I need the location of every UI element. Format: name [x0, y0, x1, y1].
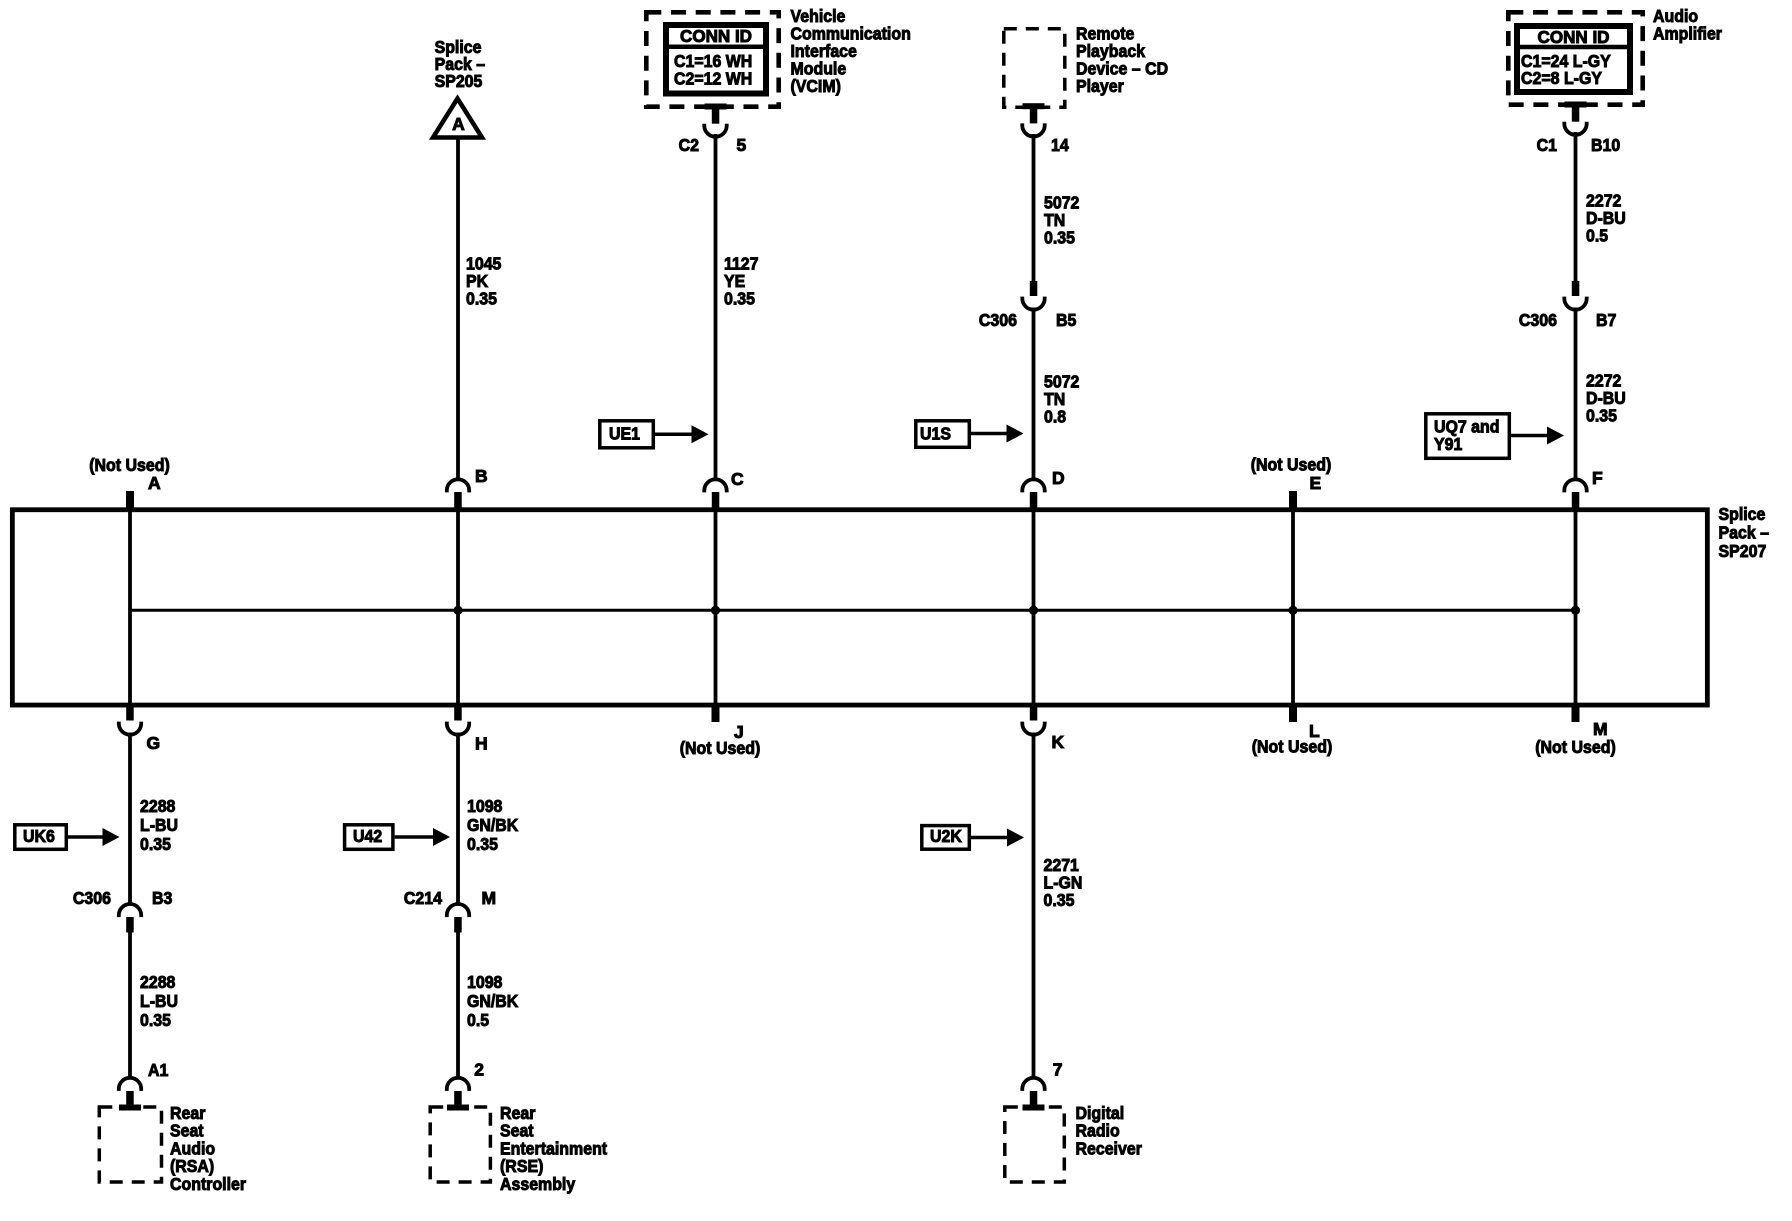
svg-text:0.35: 0.35 [140, 1010, 171, 1030]
junction dot B [453, 606, 462, 615]
svg-text:B: B [475, 466, 488, 486]
wire label 1098 GN/BK 0.35 [467, 796, 519, 854]
terminal E (Not Used) label [1251, 455, 1332, 494]
SP207 internal wire A-G [128, 510, 132, 705]
svg-text:U1S: U1S [920, 424, 951, 444]
wire 1098 GN/BK 0.5 (C214 to RSE) [456, 933, 460, 1078]
svg-text:K: K [1052, 732, 1065, 752]
svg-text:Amplifier: Amplifier [1653, 24, 1722, 44]
terminal M stub (Not Used) [1535, 705, 1616, 757]
svg-text:GN/BK: GN/BK [467, 991, 519, 1011]
splice pack SP205 label [435, 37, 486, 91]
SP207 internal wire E-L [1291, 510, 1295, 705]
svg-text:(Not Used): (Not Used) [680, 738, 761, 758]
svg-text:7: 7 [1053, 1060, 1063, 1080]
svg-text:CONN ID: CONN ID [1538, 27, 1610, 47]
wire label 1045 PK 0.35 [466, 254, 502, 309]
wire label 2288 L-BU 0.35 (lower) [140, 972, 178, 1030]
svg-text:H: H [475, 734, 488, 754]
svg-text:5: 5 [737, 135, 747, 155]
wire label 5072 TN 0.8 [1044, 372, 1080, 427]
svg-text:Assembly: Assembly [500, 1174, 575, 1194]
connector cup B [447, 479, 469, 508]
callout U1S [916, 421, 1024, 448]
wire 2272 D-BU 0.35 (C306 to SP207 F) [1574, 308, 1578, 480]
junction dot C [711, 606, 720, 615]
RSA pin stub [119, 1078, 141, 1111]
svg-text:0.5: 0.5 [467, 1010, 489, 1030]
svg-text:SP207: SP207 [1719, 541, 1767, 561]
wire label 1098 GN/BK 0.5 [467, 972, 519, 1030]
svg-text:(Not Used): (Not Used) [89, 455, 170, 475]
svg-text:Receiver: Receiver [1076, 1138, 1143, 1158]
svg-text:(Not Used): (Not Used) [1252, 737, 1333, 757]
junction dot D [1029, 606, 1038, 615]
svg-text:M: M [1593, 719, 1608, 739]
splice pack SP205 triangle A [433, 99, 482, 138]
callout UE1 [600, 421, 709, 448]
VCIM module label [791, 6, 911, 96]
svg-text:0.35: 0.35 [140, 834, 171, 854]
svg-text:C306: C306 [979, 310, 1017, 330]
svg-text:C: C [731, 469, 744, 489]
svg-text:(VCIM): (VCIM) [791, 76, 841, 96]
wire 1045 PK 0.35 (SP205 to SP207 B) [456, 139, 460, 479]
SP207 internal wire C-J [714, 510, 718, 705]
connector cup G [119, 705, 141, 735]
svg-text:Y91: Y91 [1434, 434, 1463, 454]
wire 5072 TN 0.35 (device to C306) [1032, 134, 1036, 281]
RSE pin stub [447, 1078, 469, 1111]
connector cup D [1022, 479, 1044, 508]
svg-text:B7: B7 [1596, 310, 1616, 330]
wire 2272 D-BU 0.5 (amp to C306) [1574, 132, 1578, 281]
svg-text:C2=8 L-GY: C2=8 L-GY [1521, 68, 1602, 88]
connector cup C [704, 479, 726, 508]
svg-text:C1: C1 [1537, 135, 1558, 155]
connector cup F [1564, 479, 1586, 508]
SP207 internal wire D-K [1032, 510, 1036, 705]
svg-text:C214: C214 [404, 888, 442, 908]
svg-text:CONN ID: CONN ID [680, 26, 752, 46]
svg-text:(Not Used): (Not Used) [1251, 455, 1332, 475]
VCIM module dashed box [646, 12, 778, 106]
SP207 internal wire F-M [1574, 510, 1578, 705]
wire 2271 L-GN 0.35 (SP207 K to receiver) [1032, 733, 1036, 1078]
wire label 2272 D-BU 0.35 [1586, 371, 1626, 426]
terminal A stub [126, 491, 134, 509]
svg-text:D: D [1052, 468, 1065, 488]
wire label 2272 D-BU 0.5 [1586, 191, 1626, 246]
svg-text:0.35: 0.35 [466, 289, 497, 309]
svg-text:G: G [147, 733, 161, 753]
svg-text:B3: B3 [152, 888, 173, 908]
svg-text:0.35: 0.35 [1586, 406, 1617, 426]
svg-text:GN/BK: GN/BK [467, 815, 519, 835]
terminal J stub (Not Used) [680, 705, 761, 758]
svg-text:UE1: UE1 [609, 424, 640, 444]
rear seat audio controller dashed box [99, 1107, 161, 1182]
svg-text:0.8: 0.8 [1044, 407, 1066, 427]
audio amplifier dashed box [1508, 12, 1642, 104]
svg-text:2: 2 [474, 1060, 484, 1080]
remote playback device label [1076, 24, 1168, 97]
rear seat entertainment assembly dashed box [430, 1107, 490, 1182]
svg-text:C306: C306 [1519, 310, 1557, 330]
svg-text:SP205: SP205 [435, 71, 483, 91]
digital radio receiver label [1076, 1103, 1143, 1158]
callout U2K [922, 826, 1024, 850]
junction dot E [1288, 606, 1297, 615]
svg-text:C306: C306 [73, 888, 111, 908]
svg-text:L-BU: L-BU [140, 815, 178, 835]
connector cup H [447, 705, 469, 735]
svg-text:B10: B10 [1591, 135, 1620, 155]
svg-text:A: A [148, 473, 161, 493]
connector cup K [1022, 705, 1044, 735]
svg-text:UK6: UK6 [23, 826, 55, 846]
wire label 2271 L-GN 0.35 [1044, 855, 1083, 910]
svg-text:U2K: U2K [930, 826, 962, 846]
svg-text:L-BU: L-BU [140, 991, 178, 1011]
audio amplifier pin stub C1-B10 [1564, 102, 1586, 135]
remote playback device dashed box [1004, 29, 1065, 108]
svg-text:2288: 2288 [140, 972, 176, 992]
inline connector C306 B5 [1022, 281, 1044, 310]
audio amplifier CONN ID table [1517, 26, 1630, 92]
terminal A (Not Used) label [89, 455, 170, 493]
audio amplifier label [1653, 6, 1722, 44]
rear seat audio controller label [170, 1103, 246, 1194]
digital radio receiver pin stub [1022, 1078, 1044, 1111]
SP207 internal wire B-H [456, 510, 460, 705]
svg-text:Splice: Splice [1719, 504, 1766, 524]
splice pack SP207 box [12, 510, 1707, 705]
svg-text:F: F [1592, 468, 1603, 488]
callout UK6 [15, 825, 120, 850]
svg-text:Controller: Controller [170, 1174, 246, 1194]
svg-text:1098: 1098 [467, 796, 503, 816]
svg-text:Pack –: Pack – [1719, 523, 1770, 543]
svg-text:1098: 1098 [467, 972, 503, 992]
VCIM CONN ID table [666, 25, 766, 94]
junction dot F [1571, 606, 1580, 615]
svg-text:A: A [452, 114, 465, 134]
callout UQ7 and Y91 [1426, 414, 1564, 459]
inline connector C306 B3 [119, 904, 141, 932]
wire 2288 L-BU 0.35 (SP207 G to C306) [128, 733, 132, 904]
svg-text:Player: Player [1076, 76, 1124, 96]
svg-text:(Not Used): (Not Used) [1535, 737, 1616, 757]
VCIM pin stub C2-5 [704, 104, 726, 137]
wire label 1127 YE 0.35 [724, 254, 759, 309]
wire label 2288 L-BU 0.35 (upper) [140, 796, 178, 854]
svg-text:A1: A1 [148, 1060, 169, 1080]
callout U42 [345, 825, 450, 850]
wire 1127 YE 0.35 (VCIM to SP207 C) [714, 134, 718, 479]
svg-text:B5: B5 [1056, 310, 1077, 330]
svg-text:0.5: 0.5 [1586, 226, 1608, 246]
rear seat entertainment assembly label [500, 1103, 607, 1194]
svg-text:U42: U42 [353, 826, 382, 846]
wire 2288 L-BU 0.35 (C306 to RSA) [128, 933, 132, 1078]
svg-text:14: 14 [1051, 135, 1069, 155]
svg-text:0.35: 0.35 [724, 289, 755, 309]
wire 1098 GN/BK 0.35 (SP207 H to C214) [456, 733, 460, 904]
svg-text:0.35: 0.35 [1044, 890, 1075, 910]
SP207 bus bar [130, 609, 1576, 612]
svg-text:2288: 2288 [140, 796, 176, 816]
wire label 5072 TN 0.35 [1044, 193, 1080, 248]
terminal E stub [1289, 491, 1297, 509]
remote playback pin stub [1022, 103, 1044, 136]
wire 5072 TN 0.8 (C306 to SP207 D) [1032, 308, 1036, 480]
svg-text:0.35: 0.35 [1044, 228, 1075, 248]
terminal L stub (Not Used) [1252, 705, 1333, 757]
inline connector C306 B7 [1564, 281, 1586, 310]
svg-text:E: E [1310, 473, 1322, 493]
svg-text:C2=12 WH: C2=12 WH [674, 69, 752, 89]
digital radio receiver dashed box [1005, 1107, 1065, 1182]
svg-text:M: M [482, 888, 497, 908]
svg-text:C2: C2 [679, 135, 700, 155]
splice pack SP207 label [1719, 504, 1770, 561]
svg-text:0.35: 0.35 [467, 834, 498, 854]
inline connector C214 M [447, 904, 469, 932]
